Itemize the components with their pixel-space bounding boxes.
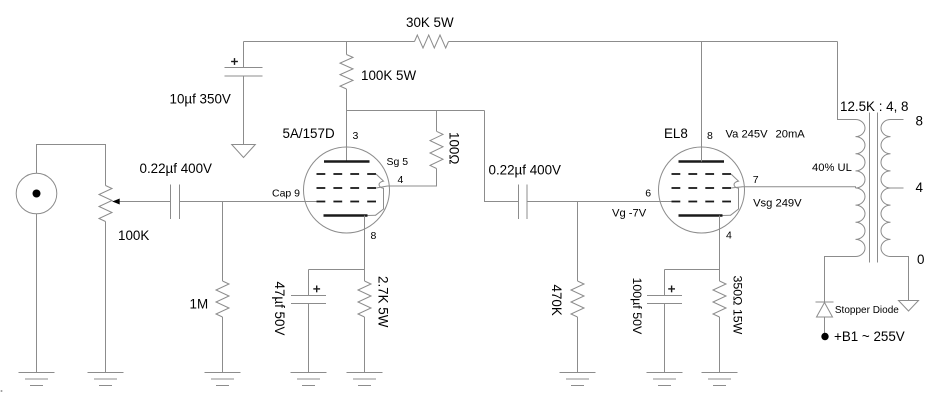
wire 100uf to ground [664, 304, 666, 373]
wire plate node to coupling cap 2 [485, 111, 519, 202]
svg-text:Va 245V: Va 245V [726, 128, 769, 140]
pot wiper arrow [112, 199, 170, 205]
svg-text:6: 6 [645, 188, 651, 200]
wire B+ rail to 10uf cap [243, 42, 245, 68]
plus sign 100uf [668, 286, 675, 293]
wire cathode EL8 down [719, 216, 721, 282]
capacitor 10uf 350V [225, 68, 263, 77]
ground 2.7K [347, 373, 383, 386]
wire B+ top rail [244, 41, 415, 43]
plus sign 47uf [313, 286, 320, 293]
svg-text:20mA: 20mA [776, 128, 806, 140]
svg-text:4: 4 [726, 230, 732, 242]
potentiometer 100K [99, 186, 112, 222]
tube V2 EL8 envelope [659, 147, 745, 233]
capacitor 100uf 50V [647, 296, 682, 304]
wire cathode V1 down [364, 216, 366, 282]
wire B+ rail right [449, 41, 838, 43]
cathode EL8 [679, 214, 723, 217]
wire plate EL8 to B+ rail [701, 42, 703, 162]
wire link to 100uf [664, 270, 666, 296]
svg-text:Cap 9: Cap 9 [272, 188, 300, 200]
grid dashes V1 g2 [317, 187, 377, 189]
wire grid node EL8 down to 470K [577, 202, 579, 282]
transformer core [870, 113, 878, 263]
wire primary bottom to stopper diode [825, 257, 856, 303]
svg-text:10µf 350V: 10µf 350V [170, 92, 231, 107]
wire diode to B1 terminal [824, 317, 826, 334]
wire 47uf to ground [308, 304, 310, 373]
secondary tap 8 wire [891, 119, 904, 121]
resistor 470K [571, 281, 584, 317]
chassis ground triangle (10uf) [232, 145, 256, 158]
g2 exit wire EL8 to transformer UL tap [731, 187, 856, 188]
capacitor 47uf 50V [291, 296, 326, 304]
secondary tap 0 wire to ground [891, 257, 909, 301]
svg-text:Stopper Diode: Stopper Diode [835, 305, 899, 316]
resistor 30K 5W [415, 35, 449, 48]
svg-text:3: 3 [353, 130, 359, 142]
svg-text:5A/157D: 5A/157D [283, 126, 335, 141]
svg-text:1M: 1M [190, 297, 209, 312]
wire 10uf to chassis ground [243, 76, 245, 145]
cathode thin extension V1 [368, 214, 377, 216]
B1 terminal dot [821, 333, 828, 340]
svg-text:Vg -7V: Vg -7V [612, 207, 647, 219]
capacitor C1 0.22uf 400V [171, 185, 180, 220]
svg-text:100Ω: 100Ω [447, 132, 462, 164]
grid dashes EL8 g1 [672, 201, 732, 203]
svg-text:100K 5W: 100K 5W [361, 68, 416, 83]
resistor 350 ohm 15W [713, 281, 726, 317]
wire 350 ohm to ground [719, 317, 721, 373]
svg-text:EL8: EL8 [664, 126, 688, 141]
ground 100uf [647, 373, 683, 386]
g2 exit wire V1 [376, 186, 388, 188]
resistor 2.7K 5W [358, 281, 371, 317]
wire plate node rail [347, 110, 485, 112]
cathode thin extension EL8 [723, 214, 732, 216]
svg-text:8: 8 [371, 230, 377, 242]
svg-text:47µf 50V: 47µf 50V [272, 282, 287, 336]
transformer secondary winding [881, 120, 891, 257]
g3 to cathode conductor EL8 with hop [731, 174, 739, 215]
capacitor C2 0.22uf 400V [519, 185, 528, 220]
svg-text:8: 8 [707, 130, 713, 142]
svg-text:2.7K 5W: 2.7K 5W [376, 276, 391, 328]
svg-text:100K: 100K [118, 228, 149, 243]
svg-text:30K 5W: 30K 5W [406, 15, 454, 30]
ground 1M [205, 373, 241, 386]
grid dashes V1 g3 [317, 173, 377, 175]
cathode V1 [324, 214, 368, 217]
wire 2.7K to ground [364, 317, 366, 373]
svg-text:350Ω 15W: 350Ω 15W [731, 276, 745, 335]
wire 100K 5W to plate node [346, 89, 348, 162]
chassis ground triangle (secondary) [899, 301, 919, 312]
svg-text:12.5K : 4, 8: 12.5K : 4, 8 [840, 99, 909, 114]
svg-text:+B1 ~ 255V: +B1 ~ 255V [834, 329, 905, 344]
ground jack [19, 373, 55, 386]
svg-text:0.22µf 400V: 0.22µf 400V [140, 161, 213, 176]
resistor 1M [216, 281, 229, 317]
wire plate node to 100 ohm [436, 111, 438, 132]
svg-text:40% UL: 40% UL [812, 162, 852, 174]
tube V1 5A/157D envelope [304, 147, 390, 233]
svg-text:0: 0 [917, 252, 924, 267]
ground 350 ohm [702, 373, 738, 386]
svg-text:4: 4 [398, 174, 404, 186]
resistor 100 ohm [430, 131, 443, 168]
plate V1 [324, 160, 370, 163]
wire cathode link EL8 [665, 269, 720, 271]
wire B+ rail to transformer primary [838, 42, 856, 120]
plus sign 10uf [231, 58, 238, 65]
grid dashes EL8 g3 [672, 173, 732, 175]
svg-text:7: 7 [753, 174, 759, 186]
g3 to cathode conductor V1 with hop [376, 174, 384, 215]
svg-text:4: 4 [916, 180, 924, 195]
resistor 100K 5W [340, 55, 353, 90]
svg-text:0.22µf 400V: 0.22µf 400V [489, 163, 562, 178]
svg-text:Sg 5: Sg 5 [387, 156, 409, 168]
ground pot [88, 373, 124, 386]
input jack J1 [16, 173, 57, 214]
wire link to 47uf [308, 270, 310, 296]
grid dashes EL8 g2 [672, 187, 732, 189]
svg-text:Vsg 249V: Vsg 249V [753, 198, 802, 210]
stopper diode [816, 302, 834, 317]
wire 1M to ground [222, 317, 224, 373]
wire pot bottom to ground [105, 222, 107, 373]
wire cap to grid of V1 [180, 201, 317, 203]
wire C2 to grid EL8 [527, 201, 672, 203]
wire 100 ohm to screen pin 4 [388, 169, 437, 187]
wire jack sleeve to ground [36, 214, 38, 373]
ground 47uf [291, 373, 327, 386]
wire B+ to 100K 5W [346, 42, 348, 55]
transformer primary winding [856, 120, 866, 257]
wire jack top to pot [37, 145, 106, 186]
svg-text:100µf 50V: 100µf 50V [630, 278, 644, 335]
grid dashes V1 g1 [317, 201, 377, 203]
svg-text:8: 8 [916, 114, 923, 129]
wire grid node down to 1M [222, 202, 224, 282]
wire cathode link V1 [309, 269, 365, 271]
plate EL8 [679, 160, 725, 163]
secondary tap 4 wire [891, 187, 904, 189]
ground 470K [560, 373, 596, 386]
svg-text:470K: 470K [549, 285, 564, 316]
wire 470K to ground [577, 317, 579, 373]
speck artifact bottom-left [1, 390, 3, 392]
